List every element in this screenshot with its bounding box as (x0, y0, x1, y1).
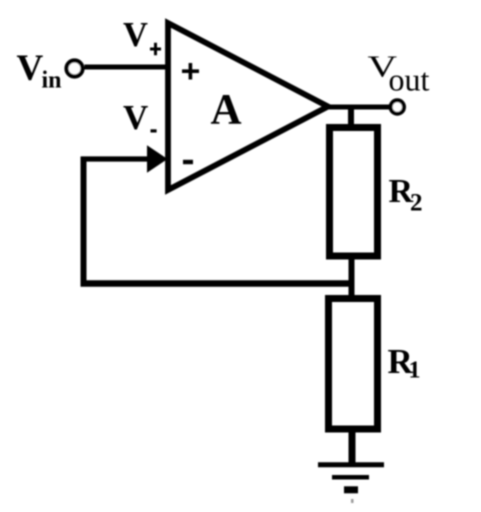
arrowhead into - input (147, 145, 168, 172)
resistor R2 (box) (330, 128, 378, 257)
svg-text:V: V (123, 16, 148, 54)
wire inverting input with arrowhead (81, 156, 150, 161)
resistor R1 (box) (329, 299, 378, 430)
ground bar 1 (318, 462, 384, 467)
svg-text:V: V (123, 98, 148, 137)
scan speck (351, 499, 354, 503)
ground bar 3 (344, 486, 358, 493)
svg-text:out: out (389, 62, 430, 98)
terminal Vin (open circle) (67, 61, 83, 77)
svg-text:2: 2 (410, 190, 423, 217)
ground bar 2 (332, 475, 369, 480)
wire stub R1 to ground (349, 428, 356, 464)
svg-text:in: in (42, 68, 62, 94)
svg-text:V: V (17, 48, 44, 89)
op-amp non-inverting input marker + (182, 63, 199, 80)
wire stub output node to R2 (348, 105, 354, 128)
op-amp inverting input marker - (183, 160, 193, 164)
wire stub R2 to junction to R1 (349, 256, 355, 300)
wire feedback vertical (left) (81, 157, 87, 284)
terminal Vout (open circle) (391, 100, 404, 113)
svg-text:A: A (211, 87, 242, 134)
wire Vin to + input (85, 65, 171, 70)
wire feedback horizontal (bottom) (81, 280, 353, 287)
svg-text:1: 1 (409, 358, 421, 384)
op-amp U1 (gain block A) triangle (168, 23, 328, 190)
wire output from apex (326, 105, 390, 110)
